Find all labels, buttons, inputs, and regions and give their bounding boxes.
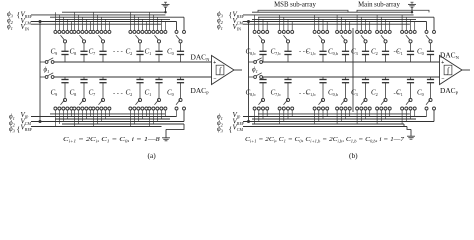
switch contact + stub bbox=[54, 12, 56, 30]
formula for figure (a) bbox=[63, 135, 160, 143]
comparator U1 triangle bbox=[212, 56, 235, 85]
switch contact + stub bbox=[81, 17, 83, 30]
switch contact + stub bbox=[129, 12, 131, 30]
switch contact + stub (lower) bbox=[104, 110, 106, 119]
node: junction (b bottom) bbox=[247, 120, 250, 123]
ground bbox=[162, 137, 170, 139]
capacitor C2 bbox=[385, 43, 387, 52]
svg-text:C1: C1 bbox=[145, 47, 152, 56]
switch contact + stub (lower) bbox=[258, 110, 260, 122]
switch contact + stub bbox=[70, 22, 72, 31]
wire: top routing line 3 (a) bbox=[55, 18, 170, 20]
switch contact + stub (lower) bbox=[85, 110, 87, 119]
switch contact + stub bbox=[152, 15, 154, 31]
capacitor C2 (lower array) bbox=[385, 77, 387, 80]
wire: VIN bus (b) bbox=[243, 23, 410, 25]
wire: ground stem (b top) bbox=[411, 7, 413, 12]
svg-text:C2: C2 bbox=[126, 89, 133, 98]
capacitor C0 bbox=[180, 43, 182, 52]
capacitor C1,b bbox=[322, 43, 324, 52]
switch contact C0 lower (b, stub) bbox=[426, 110, 428, 117]
svg-text:C8: C8 bbox=[70, 47, 77, 56]
svg-text:Main sub-array: Main sub-array bbox=[358, 1, 400, 8]
switch contact + stub bbox=[349, 22, 351, 31]
wire: VIP bus (a) bbox=[31, 116, 177, 118]
node: VCM junction (a bottom) bbox=[39, 120, 42, 123]
switch contact + stub bbox=[389, 22, 391, 31]
switch pole for capacitor C0 bbox=[426, 35, 430, 40]
svg-text:C7,b: C7,b bbox=[271, 89, 281, 99]
switch contact + stub bbox=[365, 19, 367, 30]
wire: DACN rail (b) bbox=[262, 61, 439, 63]
switch pole for capacitor C3 (lower) bbox=[364, 98, 367, 101]
switch contact + stub bbox=[326, 22, 328, 31]
switch pole for capacitor C1 (lower) bbox=[157, 98, 160, 101]
switch contact + stub (lower) bbox=[66, 110, 68, 119]
integrator box with integral sign bbox=[216, 65, 224, 75]
wire: VREF bus (a) bbox=[31, 14, 165, 16]
switch contact + stub (lower) bbox=[340, 110, 342, 122]
switch contact + stub bbox=[401, 15, 403, 31]
switch pole for capacitor C0,b (lower) bbox=[344, 98, 347, 101]
svg-text:- - -: - - - bbox=[299, 49, 309, 56]
switch contact + stub (lower) bbox=[160, 110, 162, 119]
switch contact + stub (lower) bbox=[360, 110, 362, 122]
switch contact + stub (lower) bbox=[164, 110, 166, 117]
svg-text:C0: C0 bbox=[417, 89, 424, 98]
svg-text:ϕ1: ϕ1 bbox=[44, 66, 50, 75]
switch contact + stub bbox=[258, 17, 260, 30]
svg-text:C8,b: C8,b bbox=[246, 47, 256, 57]
switch contact + stub bbox=[58, 15, 60, 31]
svg-text:C2: C2 bbox=[371, 47, 378, 56]
svg-text:C0,b: C0,b bbox=[328, 89, 338, 99]
switch contact + stub bbox=[385, 19, 387, 30]
switch pole for capacitor C0,b bbox=[341, 35, 345, 40]
wire: ground stem (a bottom) bbox=[165, 129, 167, 137]
switch contact + stub (lower) bbox=[365, 110, 367, 119]
capacitor C3 bbox=[365, 43, 367, 52]
switch pole for capacitor C8 bbox=[80, 35, 84, 40]
switch contact C0 (from routing corner) bbox=[183, 30, 186, 33]
wire: DACP rail (a) bbox=[54, 76, 212, 78]
capacitor C8,b (lower array) bbox=[262, 77, 264, 80]
sub-array boundary line bbox=[352, 28, 354, 112]
switch contact + stub bbox=[100, 17, 102, 30]
svg-text:C1: C1 bbox=[145, 89, 152, 98]
switch contact C0 (from VCM corner) bbox=[175, 30, 178, 33]
wire corner for C0 lower (b) bbox=[433, 110, 435, 122]
switch pole for capacitor C7 bbox=[99, 35, 103, 40]
switch contact + stub (lower) bbox=[279, 110, 281, 124]
wire: bottom routing line 2 (b) bbox=[252, 118, 416, 120]
switch contact + stub bbox=[62, 17, 64, 30]
capacitor C1 bbox=[410, 43, 412, 52]
switch contact + stub (lower) bbox=[385, 110, 387, 119]
switch contact + stub (lower) bbox=[291, 110, 293, 117]
switch contact + stub (lower) bbox=[70, 110, 72, 117]
switch contact + stub (lower) bbox=[380, 110, 382, 122]
svg-text:C7: C7 bbox=[89, 47, 96, 56]
wire: bottom routing line 3 (a) bbox=[62, 123, 184, 125]
wire: bottom routing line 3 (b) bbox=[252, 123, 404, 125]
switch contact + stub bbox=[133, 15, 135, 31]
switch pole for capacitor C2 bbox=[381, 35, 385, 40]
corner: bottom routing steps to ground (b) bbox=[403, 124, 405, 127]
switch pole for capacitor C7,b (lower) bbox=[286, 98, 289, 101]
switch pole for capacitor C3 bbox=[361, 35, 365, 40]
svg-text:−: − bbox=[213, 76, 216, 82]
switch contact + stub (lower) bbox=[405, 110, 407, 122]
svg-text:C0: C0 bbox=[167, 47, 174, 56]
switch contact + stub bbox=[254, 15, 256, 31]
svg-text:ϕ1: ϕ1 bbox=[252, 66, 258, 75]
svg-text:DACP: DACP bbox=[191, 86, 210, 96]
switch contact C0 lower (b, corner) bbox=[433, 107, 436, 110]
switch contact + stub bbox=[410, 19, 412, 30]
svg-text:- - -: - - - bbox=[299, 90, 309, 97]
capacitor C7 (lower array) bbox=[102, 77, 104, 80]
sampling switch bbox=[40, 76, 45, 78]
capacitor C0,b bbox=[345, 43, 347, 52]
switch pole for capacitor C2 bbox=[136, 35, 140, 40]
switch contact + stub bbox=[137, 17, 139, 30]
switch contact + stub (lower) bbox=[345, 110, 347, 119]
switch contact + stub (lower) bbox=[89, 110, 91, 117]
svg-text:C7: C7 bbox=[89, 89, 96, 98]
svg-text:- - -: - - - bbox=[113, 49, 123, 56]
wire: ground stem (b bottom) bbox=[410, 129, 412, 136]
corner: routing 2 down to C0 contact (a) bbox=[183, 17, 185, 30]
svg-text:C9: C9 bbox=[51, 89, 58, 98]
capacitor C0,b (lower array) bbox=[345, 77, 347, 80]
wire: VCM vertical (b) bbox=[248, 22, 250, 122]
switch contact + stub (lower) bbox=[322, 110, 324, 119]
switch contact + stub (lower) bbox=[314, 110, 316, 124]
svg-text:Ci+1 = 2Ci, C1 = C0, i = 1—8: Ci+1 = 2Ci, C1 = C0, i = 1—8 bbox=[63, 135, 160, 143]
switch contact + stub bbox=[340, 17, 342, 30]
bracket for Main sub-array bbox=[357, 10, 429, 12]
switch contact + stub (lower) bbox=[369, 110, 371, 117]
integrator box with integral sign bbox=[444, 65, 452, 75]
switch pole for capacitor C7 (lower) bbox=[101, 98, 104, 101]
switch contact + stub (lower) bbox=[318, 110, 320, 122]
switch contact + stub bbox=[369, 22, 371, 31]
switch pole for capacitor C7,b bbox=[284, 35, 288, 40]
wire: top routing line 3 (b) bbox=[252, 18, 416, 20]
switch contact + stub (lower) bbox=[92, 110, 94, 127]
switch contact + stub bbox=[77, 15, 79, 31]
ground bbox=[164, 1, 167, 3]
switch contact + stub (lower) bbox=[145, 110, 147, 117]
switch contact + stub (lower) bbox=[266, 110, 268, 117]
switch contact + stub bbox=[318, 17, 320, 30]
wire: top routing line 2 (b) bbox=[258, 16, 434, 18]
capacitor C1,b (lower array) bbox=[322, 77, 324, 80]
switch contact + stub (lower) bbox=[336, 110, 338, 124]
capacitor C9 bbox=[64, 43, 66, 52]
switch pole for capacitor C1 (lower) bbox=[409, 98, 412, 101]
capacitor C2 (lower array) bbox=[139, 77, 141, 80]
switch contact + stub bbox=[283, 17, 285, 30]
ground bbox=[407, 135, 415, 137]
switch contact + stub bbox=[345, 19, 347, 30]
switch contact + stub bbox=[356, 15, 358, 31]
switch contact + stub (lower) bbox=[389, 110, 391, 117]
switch contact C0 (b, routing corner) bbox=[433, 30, 436, 33]
switch pole for capacitor C1,b (lower) bbox=[321, 98, 324, 101]
switch contact + stub (lower) bbox=[283, 110, 285, 122]
switch contact + stub bbox=[287, 19, 289, 30]
switch contact + stub bbox=[262, 19, 264, 30]
svg-text:C0,b: C0,b bbox=[328, 47, 338, 57]
svg-text:C7,b: C7,b bbox=[271, 47, 281, 57]
switch contact + stub bbox=[92, 12, 94, 30]
svg-text:−: − bbox=[441, 76, 444, 82]
wire: top routing line 2 (a) bbox=[50, 16, 184, 18]
switch contact + stub (lower) bbox=[108, 110, 110, 117]
wire: bottom routing line 1 (b) bbox=[258, 113, 410, 115]
wire: VCM vertical to sampling switches (a) bbox=[39, 22, 41, 122]
switch pole for capacitor C0 (lower) bbox=[429, 98, 432, 101]
switch contact + stub bbox=[266, 22, 268, 31]
switch pole for capacitor C9 bbox=[61, 35, 65, 40]
switch contact + stub bbox=[145, 22, 147, 31]
wire: bottom routing line 1 (a) bbox=[50, 113, 165, 115]
switch contact + stub (lower) bbox=[77, 110, 79, 124]
switch contact + stub bbox=[336, 15, 338, 31]
wire corner for C0 lower (a) bbox=[183, 110, 185, 122]
ground bbox=[411, 1, 414, 3]
switch contact + stub bbox=[291, 22, 293, 31]
wire: VCM bus (a bottom) bbox=[31, 121, 184, 123]
svg-text:- -: - - bbox=[394, 49, 400, 56]
switch pole for capacitor C2 (lower) bbox=[384, 98, 387, 101]
switch contact + stub bbox=[380, 17, 382, 30]
svg-text:(a): (a) bbox=[148, 151, 157, 160]
wire: VREF bus (b) bbox=[243, 14, 414, 16]
capacitor C0 (lower array) bbox=[430, 77, 432, 80]
svg-text:C3: C3 bbox=[351, 47, 358, 56]
svg-text:∫: ∫ bbox=[446, 66, 450, 75]
switch contact + stub (lower) bbox=[100, 110, 102, 122]
switch contact + stub (lower) bbox=[54, 110, 56, 127]
wire: DACP rail (b) bbox=[262, 76, 439, 78]
switch contact + stub (lower) bbox=[262, 110, 264, 119]
comparator output wire bbox=[462, 69, 470, 71]
switch contact + stub bbox=[156, 17, 158, 30]
switch contact + stub bbox=[96, 15, 98, 31]
svg-text:C8,b: C8,b bbox=[246, 89, 256, 99]
svg-text:MSB sub-array: MSB sub-array bbox=[274, 1, 316, 8]
switch contact + stub bbox=[73, 12, 75, 30]
wire: DACN rail (a) bbox=[54, 61, 212, 63]
svg-text:C0: C0 bbox=[167, 89, 174, 98]
capacitor C8,b bbox=[262, 43, 264, 52]
switch contact + stub (lower) bbox=[137, 110, 139, 122]
node: ground stem junction (a) bbox=[164, 11, 166, 13]
switch contact + stub (lower) bbox=[73, 110, 75, 127]
capacitor C1 (lower array) bbox=[410, 77, 412, 80]
capacitor C7,b (lower array) bbox=[287, 77, 289, 80]
node: VCM junction (a) bbox=[39, 20, 42, 23]
switch contact + stub (lower) bbox=[58, 110, 60, 124]
capacitor C1 bbox=[158, 43, 160, 52]
corner: VCM down to C0 contact (a) bbox=[176, 22, 178, 31]
switch contact C0 (b, from VCM corner) bbox=[425, 30, 428, 33]
wire: bottom routing line 2 (a) bbox=[55, 118, 170, 120]
switch contact + stub bbox=[85, 19, 87, 30]
switch contact + stub bbox=[314, 15, 316, 31]
svg-text:- -: - - bbox=[394, 90, 400, 97]
comparator output wire bbox=[234, 69, 242, 71]
svg-text:- - -: - - - bbox=[113, 90, 123, 97]
comparator U1 triangle bbox=[440, 56, 463, 85]
switch contact + stub (lower) bbox=[62, 110, 64, 122]
switch contact + stub (lower) bbox=[349, 110, 351, 117]
bracket for MSB sub-array bbox=[258, 10, 348, 12]
corner: routing 2 down to C0 contact (b) bbox=[433, 17, 435, 30]
switch contact + stub (lower) bbox=[287, 110, 289, 119]
svg-text:C0: C0 bbox=[417, 47, 424, 56]
capacitor C0 bbox=[430, 43, 432, 52]
svg-text:C2: C2 bbox=[126, 47, 133, 56]
switch contact + stub bbox=[148, 12, 150, 30]
switch contact + stub bbox=[414, 22, 416, 31]
switch contact + stub bbox=[376, 15, 378, 31]
switch contact + stub bbox=[279, 15, 281, 31]
switch contact C0 lower (stub) bbox=[176, 110, 178, 117]
sampling switch bbox=[249, 61, 254, 63]
switch contact + stub (lower) bbox=[156, 110, 158, 122]
capacitor C9 (lower array) bbox=[64, 77, 66, 80]
switch contact + stub bbox=[104, 19, 106, 30]
wire: VREF bus (a bottom) bbox=[31, 126, 162, 128]
svg-text:C2: C2 bbox=[371, 89, 378, 98]
switch contact + stub bbox=[322, 19, 324, 30]
capacitor C8 (lower array) bbox=[83, 77, 85, 80]
switch contact + stub (lower) bbox=[96, 110, 98, 124]
capacitor C7 bbox=[102, 43, 104, 52]
switch contact + stub (lower) bbox=[152, 110, 154, 124]
switch contact + stub (lower) bbox=[254, 110, 256, 124]
node: ground stem junction (b) bbox=[411, 11, 413, 13]
wire: VIP bus (b) bbox=[243, 116, 427, 118]
svg-text:DACP: DACP bbox=[440, 86, 459, 96]
switch contact + stub (lower) bbox=[401, 110, 403, 124]
svg-text:C3: C3 bbox=[351, 89, 358, 98]
switch contact + stub (lower) bbox=[356, 110, 358, 124]
switch contact + stub (lower) bbox=[326, 110, 328, 117]
corner: VCM down to C0 contact (b) bbox=[426, 22, 428, 31]
wire: top routing line 1 (b) bbox=[252, 11, 412, 13]
switch pole for capacitor C8 (lower) bbox=[82, 98, 85, 101]
switch contact + stub bbox=[108, 22, 110, 31]
svg-text:Ci+1 = 2Ci, C1 = C0, Ci+1,b =: Ci+1 = 2Ci, C1 = C0, Ci+1,b = 2Ci,b, C1,… bbox=[245, 136, 405, 145]
switch contact + stub bbox=[66, 19, 68, 30]
wire: top routing line 1 (a) bbox=[62, 11, 166, 13]
switch contact + stub (lower) bbox=[81, 110, 83, 122]
capacitor C8 bbox=[83, 43, 85, 52]
capacitor C2 bbox=[139, 43, 141, 52]
node: VCM junction (b) bbox=[247, 20, 250, 23]
svg-text:C9: C9 bbox=[51, 47, 58, 56]
switch contact + stub (lower) bbox=[376, 110, 378, 124]
corner: bottom routing to ground (a) bbox=[166, 124, 184, 129]
wire: VCM bus (b bottom) bbox=[243, 126, 407, 128]
svg-text:∫: ∫ bbox=[218, 66, 222, 75]
wire: VCM bus (b) bbox=[243, 21, 427, 23]
switch contact + stub bbox=[164, 22, 166, 31]
capacitor C7,b bbox=[287, 43, 289, 52]
switch contact + stub (lower) bbox=[410, 110, 412, 119]
wire: ground stem (a top) bbox=[165, 7, 167, 12]
svg-text:DACN: DACN bbox=[440, 51, 460, 61]
switch contact C0 lower (corner) bbox=[183, 107, 186, 110]
sampling switch bbox=[40, 61, 45, 63]
switch pole for capacitor C8,b (lower) bbox=[261, 98, 264, 101]
switch contact + stub (lower) bbox=[414, 110, 416, 117]
switch pole for capacitor C2 (lower) bbox=[138, 98, 141, 101]
wire: VCM bus (a) bbox=[31, 21, 177, 23]
capacitor C1 (lower array) bbox=[158, 77, 160, 80]
switch contact + stub bbox=[89, 22, 91, 31]
svg-text:DACN: DACN bbox=[191, 53, 211, 63]
switch contact + stub bbox=[160, 19, 162, 30]
switch pole for capacitor C1 bbox=[406, 35, 410, 40]
sampling switch bbox=[249, 76, 254, 78]
switch pole for capacitor C0 bbox=[176, 35, 180, 40]
switch contact + stub (lower) bbox=[129, 110, 131, 127]
switch contact + stub bbox=[405, 17, 407, 30]
switch pole for capacitor C1,b bbox=[319, 35, 323, 40]
switch pole for capacitor C0 (lower) bbox=[179, 98, 182, 101]
switch contact + stub (lower) bbox=[133, 110, 135, 124]
switch contact + stub bbox=[141, 19, 143, 30]
capacitor C3 (lower array) bbox=[365, 77, 367, 80]
wire: VIN bus (a) bbox=[31, 23, 162, 25]
capacitor C0 (lower array) bbox=[180, 77, 182, 80]
wire: VREF bus (b bottom) bbox=[243, 121, 434, 123]
svg-text:(b): (b) bbox=[349, 151, 358, 160]
switch contact + stub (lower) bbox=[141, 110, 143, 119]
svg-text:C8: C8 bbox=[70, 89, 77, 98]
switch contact + stub bbox=[360, 17, 362, 30]
switch pole for capacitor C9 (lower) bbox=[63, 98, 66, 101]
formula for figure (b) bbox=[245, 136, 405, 145]
switch contact + stub (lower) bbox=[148, 110, 150, 127]
switch pole for capacitor C8,b bbox=[259, 35, 263, 40]
switch pole for capacitor C1 bbox=[155, 35, 159, 40]
